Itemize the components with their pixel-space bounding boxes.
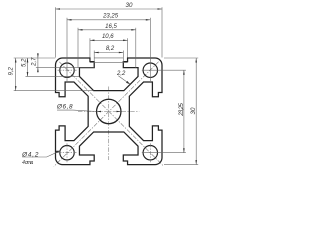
extension line top edge to left dims: [14, 57, 56, 59]
dimension 23,25 right: line and arrows: [183, 70, 185, 153]
extension line right for dim 8,2: [122, 51, 124, 63]
extension line top-right hole center to dim 23,25: [142, 69, 186, 71]
extension line left for dim 10,6: [89, 38, 91, 57]
svg-text:2,7: 2,7: [32, 57, 38, 67]
extension line top edge to dim 30 right: [164, 57, 198, 59]
extension line right for dim 10,6: [127, 38, 129, 57]
centerline bottom-right hole vertical: [149, 143, 151, 162]
dimension 30 right: line and arrows: [195, 58, 197, 165]
profile outline: [56, 58, 163, 165]
center hole Ø6.8: [97, 99, 121, 123]
svg-text:30: 30: [126, 2, 133, 9]
corner hole top-left Ø4.2: [60, 63, 74, 77]
svg-text:4 отв.: 4 отв.: [22, 160, 34, 166]
extension line cavity wall depth 5,2: [26, 75, 80, 77]
extension line slot floor depth 9,2: [14, 90, 94, 92]
extension line right for dim 23,25 top (into hole centerline): [149, 18, 151, 81]
centerline diagonal TL-BR: [59, 62, 163, 166]
svg-text:23,25: 23,25: [179, 103, 185, 117]
extension line lip depth 2,7: [36, 67, 94, 69]
centerline top-left hole horizontal: [58, 69, 77, 71]
svg-text:Ø4,2: Ø4,2: [21, 151, 39, 158]
dimension 8,2 top: line and arrows: [94, 52, 123, 54]
leader for corner holes Ø4,2: [22, 151, 60, 157]
extension line right for dim 16,5: [135, 28, 137, 68]
svg-text:9,2: 9,2: [9, 66, 15, 75]
extension line right for dim 30 top: [161, 7, 163, 57]
svg-text:30: 30: [190, 107, 197, 114]
extension line left for dim 30 top: [55, 7, 57, 57]
centerline bottom-left hole horizontal: [58, 152, 77, 154]
svg-text:2,2: 2,2: [116, 71, 126, 77]
top slot closing membrane inner face: [90, 62, 128, 64]
extension line left for dim 16,5: [77, 28, 79, 68]
dimension 30 top: line and arrows: [56, 8, 163, 10]
dimension 9,2 left: line and arrows: [15, 58, 17, 91]
svg-text:8,2: 8,2: [106, 46, 115, 52]
extension line left for dim 8,2: [93, 51, 95, 63]
centerline diagonal TR-BL: [54, 62, 159, 167]
dimension 2,7 left: line with outside arrows: [37, 53, 39, 73]
leader for center hole Ø6,8: [57, 110, 97, 111]
centerline vertical axis: [108, 87, 110, 161]
svg-text:16,5: 16,5: [105, 24, 117, 30]
extension line bottom-right hole center to dim 23,25: [142, 152, 186, 154]
corner hole bottom-left Ø4.2: [60, 146, 74, 160]
dimension 23,25 top: line and arrows: [67, 19, 150, 21]
centerline bottom-left hole vertical: [66, 143, 68, 162]
svg-text:Ø6,8: Ø6,8: [56, 103, 73, 110]
svg-text:23,25: 23,25: [102, 14, 119, 20]
leader for web thickness 2,2: [118, 76, 130, 84]
extension line left for dim 23,25 top (into hole centerline): [66, 18, 68, 81]
top slot closing membrane outer face: [94, 57, 123, 59]
dimension 5,2 left: line and arrows: [27, 58, 29, 76]
corner hole top-right Ø4.2: [143, 63, 157, 77]
extension line bottom edge to dim 30 right: [164, 164, 198, 166]
dimension 10,6 top: line and arrows: [90, 39, 128, 41]
corner hole bottom-right Ø4.2: [143, 146, 157, 160]
centerline horizontal axis: [78, 111, 139, 113]
dimension 16,5 top: line and arrows: [78, 29, 136, 31]
svg-text:10,6: 10,6: [102, 34, 114, 40]
svg-text:5,2: 5,2: [22, 58, 28, 67]
